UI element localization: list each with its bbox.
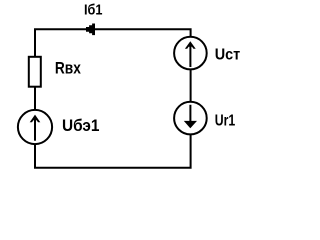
svg-text:Uст: Uст — [215, 47, 241, 64]
svg-text:Rвх: Rвх — [55, 58, 81, 77]
svg-text:Uбэ1: Uбэ1 — [62, 116, 100, 135]
svg-text:Iб1: Iб1 — [84, 1, 103, 18]
svg-text:Ur1: Ur1 — [215, 112, 236, 129]
